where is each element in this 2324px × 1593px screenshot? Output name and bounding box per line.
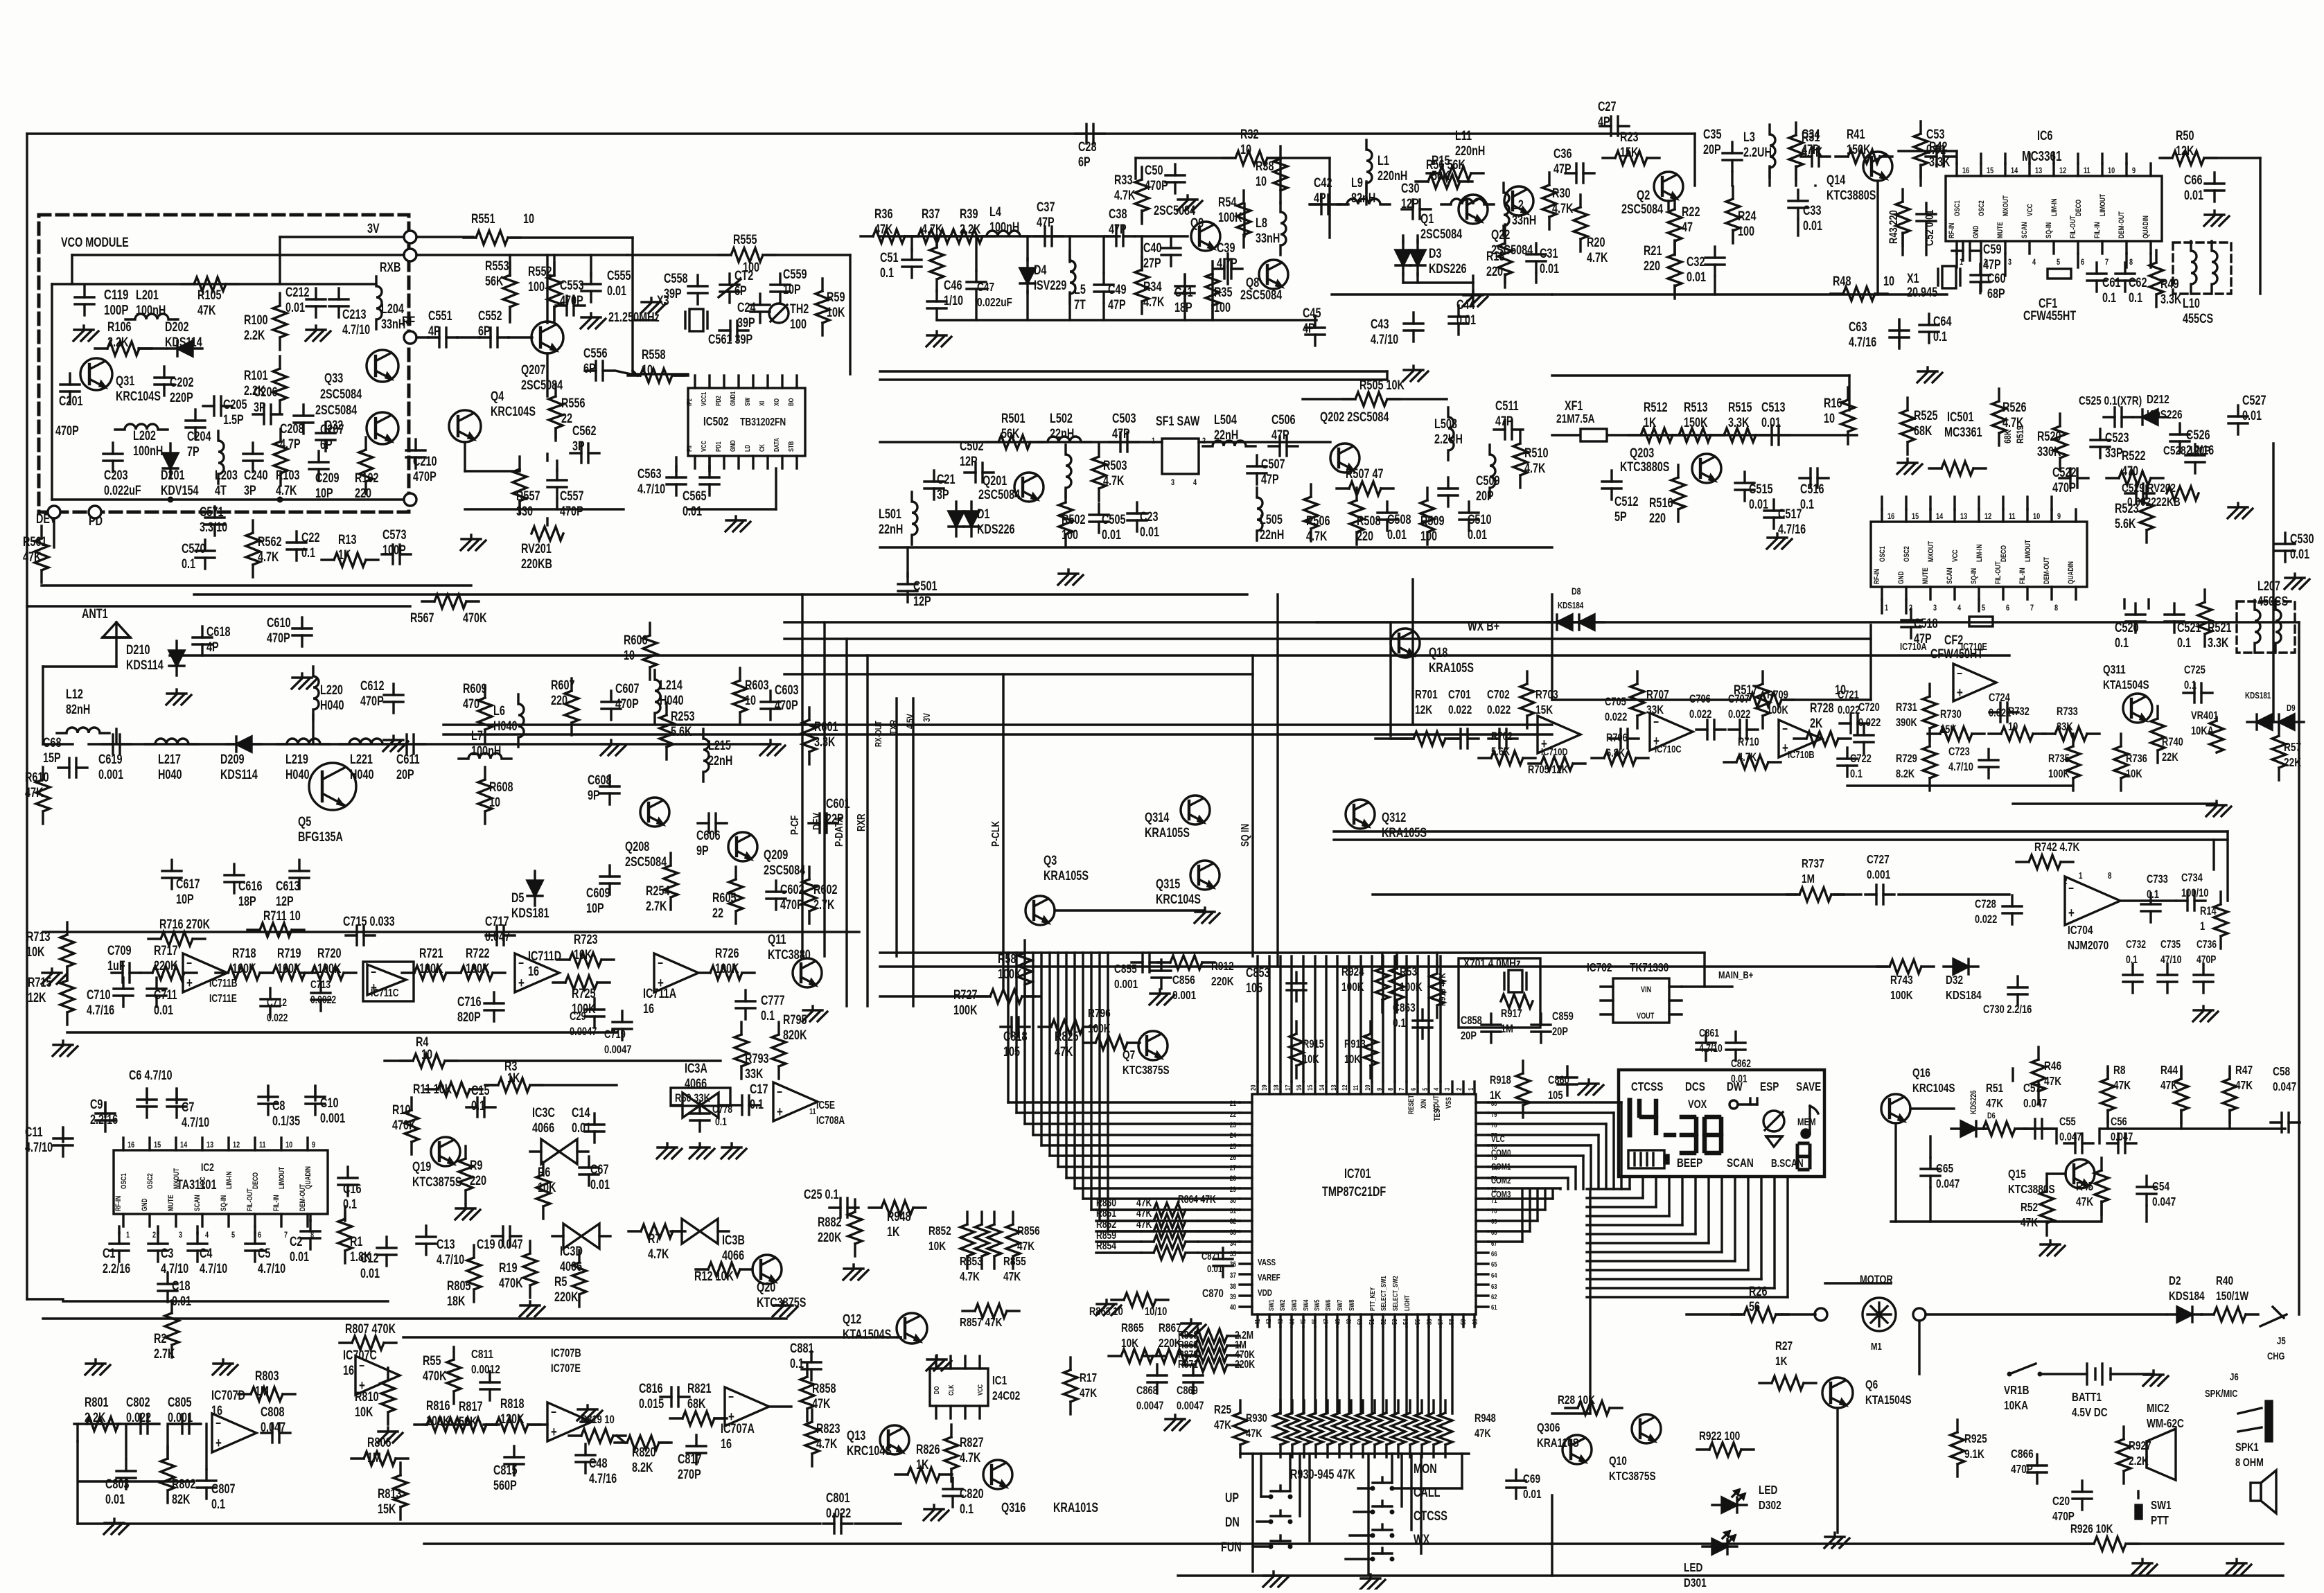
svg-text:44: 44	[1288, 1319, 1296, 1325]
svg-text:0.047: 0.047	[2023, 1097, 2047, 1110]
wire	[1392, 1454, 1462, 1488]
svg-text:16: 16	[343, 1363, 354, 1378]
wire	[533, 1084, 617, 1086]
svg-text:R609: R609	[463, 681, 486, 696]
capacitor C240	[243, 443, 267, 498]
svg-text:R16: R16	[1824, 396, 1842, 410]
svg-text:R8: R8	[2113, 1064, 2126, 1077]
svg-text:Q7: Q7	[1123, 1048, 1135, 1062]
svg-text:C527: C527	[2242, 393, 2266, 407]
resistor R4	[400, 1035, 457, 1068]
svg-text:PTT_KEY: PTT_KEY	[1368, 1287, 1376, 1311]
ground	[461, 535, 486, 550]
wire	[1778, 1313, 1815, 1315]
resistor R743	[1877, 960, 1934, 1003]
resistor R807	[340, 1321, 396, 1350]
svg-text:0.1: 0.1	[761, 1008, 775, 1023]
svg-text:47K: 47K	[1003, 1270, 1021, 1283]
svg-text:RXB: RXB	[380, 260, 400, 274]
svg-text:R705 12K: R705 12K	[1528, 763, 1568, 776]
svg-text:47K: 47K	[2076, 1195, 2093, 1208]
capacitor C119	[75, 286, 129, 318]
capacitor C557	[547, 469, 583, 519]
svg-text:VCO MODULE: VCO MODULE	[61, 235, 129, 249]
svg-text:Q1: Q1	[1420, 211, 1434, 226]
svg-text:Q3: Q3	[1044, 853, 1057, 868]
svg-text:4.7K: 4.7K	[1738, 750, 1757, 764]
svg-text:PD2: PD2	[714, 396, 722, 406]
capacitor C11	[25, 1125, 73, 1156]
svg-text:40: 40	[1230, 1303, 1237, 1312]
svg-text:R802: R802	[172, 1477, 195, 1491]
svg-text:47K: 47K	[23, 549, 42, 564]
svg-text:C719: C719	[604, 1028, 626, 1041]
inductor L8	[1256, 202, 1286, 255]
crystal X3	[608, 293, 707, 331]
wire	[1100, 953, 1240, 1221]
svg-text:15: 15	[1306, 1084, 1314, 1091]
wire	[906, 547, 908, 577]
svg-text:NJM2070: NJM2070	[2068, 939, 2109, 952]
svg-text:C15: C15	[471, 1083, 489, 1098]
capacitor C811	[471, 1348, 500, 1400]
resistor R28	[1558, 1393, 1622, 1415]
svg-text:R742 4.7K: R742 4.7K	[2034, 840, 2080, 854]
svg-text:Q19: Q19	[412, 1159, 431, 1174]
svg-text:10: 10	[2008, 720, 2018, 733]
capacitor C856	[1152, 960, 1196, 1003]
svg-text:BEEP: BEEP	[1677, 1156, 1703, 1170]
svg-text:DATA: DATA	[773, 438, 780, 452]
wire RF row	[43, 743, 73, 745]
svg-text:10/10: 10/10	[1145, 1305, 1167, 1318]
inductor L215	[703, 729, 732, 782]
wire	[1834, 893, 1861, 895]
capacitor C521	[2165, 604, 2201, 651]
wire	[1253, 1454, 1271, 1547]
svg-text:C60: C60	[1987, 271, 2005, 285]
svg-text:RXR: RXR	[855, 813, 868, 831]
resistor R816	[414, 1398, 471, 1432]
wire	[1488, 1145, 1591, 1189]
transistor Q312	[1346, 800, 1427, 840]
resistor R556	[549, 384, 585, 441]
opamp IC711D	[515, 949, 561, 992]
svg-text:R856: R856	[1017, 1224, 1040, 1238]
svg-text:C724: C724	[1989, 691, 2010, 704]
resistor R101	[244, 356, 287, 413]
inductor L6	[493, 694, 524, 747]
svg-text:4P: 4P	[428, 324, 441, 338]
wire	[42, 667, 44, 744]
svg-text:220K: 220K	[1235, 1358, 1256, 1371]
svg-text:H040: H040	[660, 693, 683, 707]
IC701 pins left	[1240, 1102, 1252, 1307]
svg-text:D3: D3	[1429, 246, 1441, 261]
svg-text:C506: C506	[1271, 412, 1295, 427]
resistor R30	[1542, 173, 1574, 229]
IC6 pin names	[1948, 211, 2150, 238]
svg-text:0.01: 0.01	[2242, 408, 2262, 423]
capacitor C48	[576, 1444, 617, 1486]
resistor R13	[322, 532, 378, 567]
svg-text:DEV: DEV	[811, 813, 823, 830]
svg-text:ISV229: ISV229	[1034, 278, 1066, 292]
svg-text:C713: C713	[310, 978, 331, 991]
svg-text:100K: 100K	[419, 961, 443, 976]
resistor R863	[1089, 1293, 1168, 1319]
svg-text:CT2: CT2	[734, 268, 753, 283]
svg-text:14: 14	[1936, 512, 1943, 522]
svg-text:0.022: 0.022	[126, 1410, 151, 1425]
svg-text:C34: C34	[1802, 127, 1820, 141]
wire	[1314, 1327, 1316, 1414]
svg-text:C55: C55	[2059, 1115, 2076, 1128]
resistor R735	[2048, 734, 2080, 791]
wire vert p5	[1002, 674, 1004, 989]
svg-text:6: 6	[1409, 1088, 1417, 1091]
ground	[1165, 1415, 1190, 1430]
svg-text:1: 1	[2200, 919, 2205, 933]
IC501 pins top	[1882, 509, 2076, 522]
svg-text:SCAN: SCAN	[1946, 567, 1954, 584]
transistor Q10	[1609, 1414, 1661, 1484]
svg-text:1M: 1M	[255, 1384, 269, 1398]
svg-text:SW6: SW6	[1324, 1299, 1332, 1311]
resistor R512	[1628, 400, 1685, 442]
svg-text:9: 9	[1375, 1088, 1383, 1091]
resistor R525	[1901, 398, 1937, 455]
svg-text:C54: C54	[2152, 1180, 2169, 1193]
svg-text:R558: R558	[642, 347, 665, 362]
resistor R730	[1928, 707, 1984, 741]
svg-text:SCAN: SCAN	[2021, 222, 2029, 238]
svg-text:220: 220	[355, 486, 371, 500]
svg-text:56: 56	[1425, 1319, 1433, 1325]
svg-text:SCAN: SCAN	[193, 1195, 202, 1211]
resistor R722	[448, 946, 505, 980]
svg-text:0.1: 0.1	[750, 1097, 764, 1111]
svg-text:R803: R803	[255, 1368, 279, 1383]
ground	[2206, 801, 2231, 816]
svg-text:C732: C732	[2126, 938, 2146, 951]
capacitor C817	[678, 1435, 706, 1482]
svg-text:R556: R556	[561, 396, 585, 410]
svg-text:−: −	[1653, 716, 1659, 729]
jack J6	[2205, 1371, 2272, 1441]
IC701 box	[1252, 1094, 1476, 1314]
wire	[675, 457, 677, 471]
resistor R3	[486, 1059, 543, 1092]
diode D210	[126, 641, 184, 676]
svg-text:ANT1: ANT1	[82, 606, 108, 621]
svg-text:0.01: 0.01	[360, 1266, 380, 1280]
IC6 pin names2	[1953, 194, 2107, 216]
svg-text:22nH: 22nH	[708, 753, 732, 768]
wire	[880, 370, 1387, 372]
svg-text:22: 22	[712, 906, 723, 920]
transistor Q5	[298, 763, 356, 845]
svg-text:100K: 100K	[715, 961, 739, 976]
svg-text:16: 16	[1962, 166, 1969, 176]
svg-text:L508: L508	[1434, 416, 1457, 431]
wire vert p4	[866, 655, 868, 1006]
VCO inner box left	[51, 284, 53, 500]
svg-text:0.1: 0.1	[301, 545, 315, 560]
svg-text:0.01: 0.01	[1468, 527, 1487, 542]
svg-text:C212: C212	[285, 285, 309, 299]
wire	[2207, 157, 2260, 159]
resistor R47	[2223, 1064, 2253, 1123]
wire	[1587, 1177, 1735, 1261]
svg-text:R11 10K: R11 10K	[413, 1082, 452, 1096]
svg-text:WM-62C: WM-62C	[2147, 1417, 2184, 1430]
wire	[2162, 157, 2169, 159]
resistor R912	[1158, 956, 1234, 989]
svg-text:LIMOUT: LIMOUT	[278, 1167, 286, 1189]
svg-text:RF-IN: RF-IN	[114, 1196, 123, 1211]
svg-text:2.2UH: 2.2UH	[1434, 432, 1463, 446]
svg-text:4.7/10: 4.7/10	[637, 482, 665, 496]
svg-text:1: 1	[126, 1231, 130, 1240]
transistor Q14	[1826, 152, 1892, 203]
capacitor C516	[1799, 468, 1829, 512]
wire	[1891, 1220, 2100, 1222]
wire	[509, 336, 532, 338]
svg-text:PTT: PTT	[2151, 1514, 2169, 1527]
svg-text:4.7P: 4.7P	[280, 437, 301, 451]
svg-text:R863 10: R863 10	[1089, 1305, 1123, 1318]
ground	[2040, 1240, 2065, 1256]
svg-text:C68: C68	[43, 735, 61, 750]
svg-text:14: 14	[180, 1141, 187, 1150]
label R930	[1246, 1411, 1496, 1440]
svg-text:C503: C503	[1112, 411, 1136, 425]
capacitor C25	[804, 1187, 859, 1217]
wire	[2012, 1068, 2014, 1081]
IC502 box	[688, 388, 805, 456]
svg-text:R806: R806	[367, 1435, 391, 1450]
wire	[465, 353, 556, 471]
svg-text:4.7/10: 4.7/10	[1371, 332, 1398, 346]
svg-text:Q315: Q315	[1156, 877, 1180, 891]
svg-text:100K: 100K	[1400, 980, 1423, 994]
svg-text:H040: H040	[158, 767, 182, 782]
capacitor C7	[167, 1089, 209, 1130]
wire	[312, 715, 314, 744]
capacitor C502	[960, 439, 994, 482]
svg-text:R719: R719	[277, 946, 301, 960]
resistor R925	[1951, 1420, 1987, 1477]
svg-text:C513: C513	[1761, 400, 1785, 414]
svg-text:VCC: VCC	[1951, 549, 1960, 562]
capacitor C777	[736, 990, 784, 1023]
svg-text:D1: D1	[977, 507, 989, 521]
svg-text:X3: X3	[657, 293, 669, 308]
transistor Q18	[1391, 628, 1474, 676]
svg-text:C203: C203	[104, 468, 127, 482]
wire	[1348, 1327, 1350, 1414]
wire	[43, 1317, 786, 1319]
resistor R33	[1114, 167, 1149, 224]
svg-text:IC701: IC701	[1344, 1166, 1371, 1181]
svg-text:R525: R525	[1914, 408, 1937, 423]
svg-text:100K: 100K	[998, 967, 1022, 981]
opamp IC710C	[1650, 713, 1693, 755]
wire	[1310, 203, 1330, 205]
inductor L201	[125, 288, 178, 319]
svg-text:0.022uF: 0.022uF	[104, 483, 141, 498]
svg-text:R733: R733	[2057, 705, 2078, 718]
svg-text:150K: 150K	[1684, 415, 1708, 430]
wire	[1269, 157, 1330, 159]
svg-text:RF-IN: RF-IN	[1873, 569, 1881, 584]
capacitor C66	[2184, 173, 2224, 203]
resistor R57	[2272, 723, 2301, 780]
svg-text:C709: C709	[107, 943, 131, 958]
svg-text:C711: C711	[154, 987, 177, 1002]
wire	[1587, 1177, 1748, 1270]
svg-text:C22: C22	[301, 530, 319, 545]
resistor R608	[478, 767, 513, 824]
resistor R58	[998, 940, 1032, 997]
resistor R606	[624, 623, 657, 680]
svg-text:C204: C204	[187, 429, 211, 443]
svg-text:C868: C868	[1136, 1384, 1158, 1397]
svg-text:C807: C807	[211, 1481, 235, 1496]
wire	[1050, 953, 1240, 1156]
wire	[1984, 1127, 2285, 1129]
ground	[577, 1405, 602, 1420]
wire	[80, 1480, 194, 1482]
svg-text:C712: C712	[267, 996, 287, 1009]
svg-text:0.01: 0.01	[1207, 1262, 1223, 1274]
svg-text:2SC5084: 2SC5084	[1154, 203, 1196, 218]
svg-text:C603: C603	[775, 683, 798, 697]
wire	[1488, 1189, 1538, 1221]
capacitor C736	[2194, 938, 2217, 993]
svg-text:33K: 33K	[745, 1066, 764, 1081]
svg-text:C507: C507	[1261, 457, 1285, 471]
svg-text:0.022: 0.022	[826, 1506, 851, 1520]
resistor R827	[944, 1425, 983, 1481]
capacitor C723	[1948, 745, 1998, 778]
svg-text:8: 8	[2129, 258, 2133, 267]
svg-text:47P: 47P	[1261, 472, 1279, 486]
capacitor C505	[1089, 504, 1125, 543]
wire	[1279, 1327, 1281, 1414]
ground	[1263, 1572, 1288, 1587]
resistor R819	[569, 1413, 626, 1443]
wire	[119, 1213, 345, 1233]
resistor R706	[1592, 731, 1648, 765]
ground	[166, 689, 191, 705]
svg-text:470P: 470P	[560, 293, 583, 308]
svg-text:SW: SW	[743, 397, 751, 406]
svg-text:R40: R40	[2216, 1274, 2233, 1287]
svg-text:470P: 470P	[615, 696, 639, 711]
svg-text:100K: 100K	[277, 961, 301, 976]
svg-text:C38: C38	[1109, 206, 1127, 221]
svg-text:20P: 20P	[396, 767, 414, 782]
wire	[1869, 625, 1872, 700]
capacitor C862	[1726, 1032, 1751, 1086]
wire	[688, 508, 776, 510]
svg-text:R855: R855	[1003, 1255, 1026, 1268]
capacitor C31	[1526, 243, 1559, 276]
svg-text:L204: L204	[381, 301, 404, 316]
svg-text:C706: C706	[1689, 692, 1711, 705]
resistor R607	[551, 678, 579, 735]
resistor R519zz	[1929, 461, 1986, 475]
resistor R253	[660, 703, 694, 759]
resistor R36	[861, 206, 917, 243]
svg-text:R5: R5	[554, 1274, 567, 1289]
svg-text:5.6K: 5.6K	[671, 724, 692, 739]
wire	[1587, 1177, 1722, 1252]
svg-text:47K: 47K	[2160, 1079, 2178, 1092]
svg-text:CTCSS: CTCSS	[1414, 1508, 1447, 1523]
svg-text:21.250MHz: 21.250MHz	[608, 310, 660, 324]
svg-text:330K: 330K	[2037, 444, 2061, 459]
svg-text:KTA1504S: KTA1504S	[1865, 1393, 1912, 1407]
capacitor C13	[416, 1226, 464, 1267]
svg-text:22nH: 22nH	[1050, 426, 1074, 441]
resistor R43	[1887, 189, 1910, 246]
svg-text:KDS226: KDS226	[2147, 408, 2183, 421]
label VLC	[1491, 1135, 1511, 1200]
resistor R45	[2076, 1158, 2109, 1215]
wire bus F	[443, 723, 1552, 725]
thermistor TH2	[769, 301, 809, 331]
capacitor C54	[2137, 1176, 2176, 1209]
capacitor C735	[2158, 938, 2182, 993]
ground	[924, 1505, 949, 1520]
svg-text:Q16: Q16	[1912, 1066, 1930, 1080]
pot RV201	[521, 518, 563, 572]
svg-text:4.7K: 4.7K	[1306, 529, 1328, 543]
capacitor C50	[1145, 163, 1185, 193]
svg-text:13: 13	[2035, 166, 2042, 176]
svg-text:21: 21	[1230, 1100, 1237, 1108]
svg-text:390K: 390K	[1896, 716, 1917, 729]
capacitor C2	[290, 1220, 320, 1265]
wire	[1552, 1412, 1590, 1414]
transistor Q16	[1881, 1066, 1955, 1123]
resistor R821	[670, 1381, 727, 1425]
resistor R605	[712, 867, 743, 924]
svg-text:0.022: 0.022	[1448, 703, 1472, 716]
resistor R254	[646, 853, 678, 914]
resistor R501	[986, 411, 1043, 449]
capacitor C59	[1952, 241, 2001, 272]
svg-text:M1: M1	[1871, 1340, 1882, 1352]
svg-text:−: −	[2068, 882, 2074, 895]
svg-text:Q201: Q201	[983, 473, 1007, 488]
plug J5	[2260, 1307, 2287, 1362]
resistor R11	[413, 1082, 482, 1096]
transistor Q6	[1822, 1378, 1912, 1408]
capacitor C573	[382, 527, 411, 564]
svg-text:R562: R562	[258, 534, 281, 549]
resistor R510	[1513, 431, 1548, 488]
svg-text:C9: C9	[90, 1097, 103, 1111]
wire	[1033, 953, 1240, 1135]
wire	[2129, 1542, 2283, 1544]
svg-text:CTCSS: CTCSS	[1631, 1080, 1664, 1093]
label PTT_KEY	[1368, 1276, 1411, 1311]
svg-text:D201: D201	[161, 468, 184, 482]
